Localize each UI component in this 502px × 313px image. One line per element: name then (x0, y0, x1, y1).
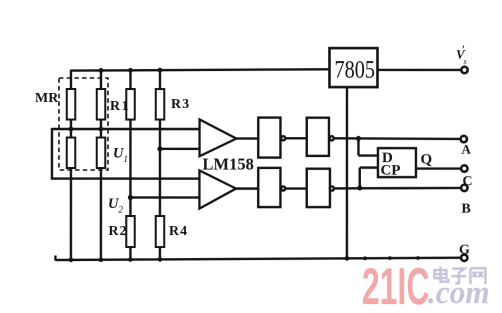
svg-text:1: 1 (123, 154, 128, 164)
svg-text:R3: R3 (171, 97, 190, 112)
svg-text:’: ’ (461, 44, 464, 54)
svg-text:LM158: LM158 (202, 155, 253, 174)
svg-text:R1: R1 (110, 99, 130, 114)
svg-text:B: B (461, 202, 470, 217)
svg-text:C: C (462, 174, 472, 189)
svg-text:s: s (463, 57, 466, 66)
svg-text:MR: MR (35, 91, 59, 106)
svg-text:R4: R4 (169, 224, 188, 239)
svg-text:R2: R2 (108, 224, 127, 239)
svg-text:2: 2 (118, 205, 123, 215)
svg-text:21IC: 21IC (362, 258, 430, 313)
svg-text:CP: CP (380, 163, 400, 179)
svg-text:G: G (459, 243, 470, 258)
svg-text:A: A (461, 142, 471, 157)
svg-text:Q: Q (420, 152, 432, 168)
svg-text:7805: 7805 (334, 56, 374, 83)
